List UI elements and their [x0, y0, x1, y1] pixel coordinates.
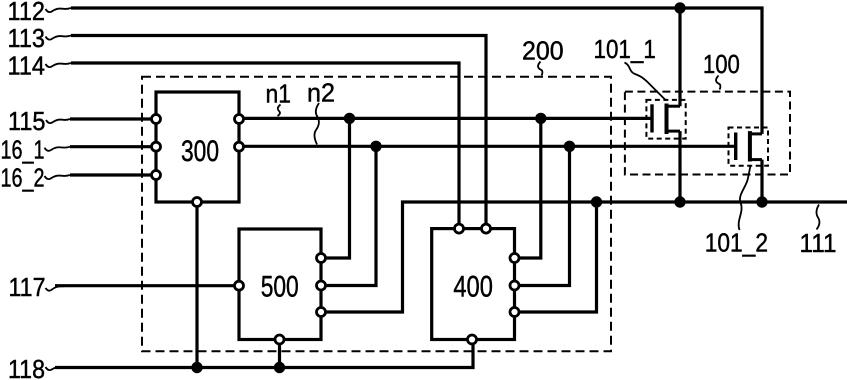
junction dot n1 / 400 pin 1	[535, 113, 546, 124]
junction dot net 118 / 300 bottom	[191, 362, 202, 373]
leader squiggle 115	[46, 119, 70, 123]
svg-text:200: 200	[522, 35, 564, 65]
wire net 118 bottom rail up to 400 bottom pin	[55, 340, 473, 368]
pin 300 right 2 node n2	[235, 142, 244, 151]
svg-text:118: 118	[8, 354, 45, 380]
leader squiggle 200	[538, 62, 542, 76]
wire node n1 from 300 to 101_1 gate	[239, 117, 652, 120]
pin 400 top 1	[455, 224, 464, 233]
junction dot n2 / 400 pin 2	[564, 141, 575, 152]
svg-text:114: 114	[8, 51, 46, 81]
block 300	[156, 92, 239, 202]
wire net 111 rail from 500 pin 3	[321, 202, 847, 312]
pin 400 right 1	[510, 254, 519, 263]
leader squiggle 111	[816, 205, 819, 230]
svg-text:111: 111	[800, 228, 837, 258]
wire net 117 into 500 left pin	[55, 284, 239, 287]
pin 300 right 1 node n1	[235, 115, 244, 124]
pin 400 top 2	[482, 224, 491, 233]
leader squiggle 16_1	[45, 147, 71, 151]
wire 400 pin 1 up to n1	[515, 118, 541, 258]
wire net 16_1 into 300 pin	[70, 145, 156, 148]
pin 300 left 1	[152, 115, 161, 124]
svg-text:115: 115	[8, 106, 46, 136]
pin 500 left	[235, 281, 244, 290]
pin 400 right 2	[510, 281, 519, 290]
leader line 101_1	[625, 63, 667, 101]
pin 300 left 2	[152, 142, 161, 151]
pin 300 bottom	[193, 198, 202, 207]
pin 400 bottom	[468, 335, 477, 344]
block 500	[239, 229, 321, 340]
wire 500 pin 2 up to n2	[321, 146, 376, 285]
pin 500 right 2	[317, 281, 326, 290]
junction dot n1 / 500 pin 1	[344, 113, 355, 124]
pin 400 right 3	[510, 308, 519, 317]
block 400	[432, 229, 515, 340]
transistor 101_1	[652, 104, 680, 135]
leader squiggle n2	[314, 103, 319, 145]
svg-text:400: 400	[453, 271, 493, 304]
pin 500 bottom	[275, 335, 284, 344]
svg-text:101_2: 101_2	[705, 228, 768, 258]
wire net 114 with corner down to 400 top pin 1	[71, 63, 459, 229]
wire node n2 from 300 to 101_2 gate	[239, 145, 735, 148]
dashed box around transistor 101_2	[729, 128, 769, 166]
svg-text:117: 117	[9, 272, 46, 302]
junction dot n2 / 500 pin 2	[370, 141, 381, 152]
leader squiggle 113	[46, 36, 72, 40]
transistor 101_2	[736, 131, 762, 161]
wire 101_2 source down to net 111	[760, 160, 763, 202]
wire 500 pin 1 up to n1	[321, 118, 350, 258]
wire net 112 top rail with corner down to 101_2 drain	[71, 8, 762, 134]
dashed box around transistor 101_1	[646, 100, 685, 139]
wire net 113 with corner down to 400 top pin 2	[71, 36, 486, 229]
wire 300 bottom pin down to net 118	[195, 202, 198, 368]
junction dot net 111 / 101_2 source	[756, 196, 767, 207]
leader squiggle 112	[46, 8, 72, 12]
svg-text:100: 100	[703, 49, 740, 79]
junction dot net 118 / 500 bottom	[274, 362, 285, 373]
svg-text:113: 113	[8, 23, 46, 53]
pin 500 right 1	[317, 254, 326, 263]
svg-text:16_1: 16_1	[1, 135, 45, 165]
wire 101_1 source down to net 111	[678, 131, 681, 202]
leader squiggle 114	[46, 63, 72, 67]
dashed box 200	[142, 77, 611, 352]
junction dot net 111 / 400 pin 3	[591, 196, 602, 207]
wire net 115 into 300 pin	[70, 117, 156, 120]
pin 300 left 3	[152, 171, 161, 180]
junction dot net 111 / 101_1 source	[674, 196, 685, 207]
wire net 16_2 into 300 pin	[70, 173, 156, 176]
svg-text:n2: n2	[307, 78, 335, 108]
svg-text:300: 300	[181, 135, 219, 168]
junction dot net 112 / 101_1 drain	[674, 2, 685, 13]
pin 500 right 3	[317, 308, 326, 317]
leader squiggle 16_2	[45, 175, 71, 179]
leader line 101_2	[739, 166, 751, 231]
svg-text:16_2: 16_2	[1, 163, 45, 193]
wire 400 pin 3 up to net 111	[515, 202, 597, 312]
dashed box 100	[625, 92, 790, 175]
leader squiggle 118	[46, 367, 71, 370]
leader squiggle 100	[716, 76, 720, 90]
leader squiggle 117	[46, 286, 69, 291]
svg-text:500: 500	[261, 271, 299, 304]
svg-text:101_1: 101_1	[594, 34, 656, 64]
wire 400 pin 2 up to n2	[515, 146, 570, 285]
leader squiggle n1	[278, 105, 281, 117]
wire 500 bottom pin down to net 118	[278, 340, 281, 368]
wire 101_1 drain vertical from net 112	[678, 8, 681, 106]
svg-text:n1: n1	[266, 79, 292, 109]
